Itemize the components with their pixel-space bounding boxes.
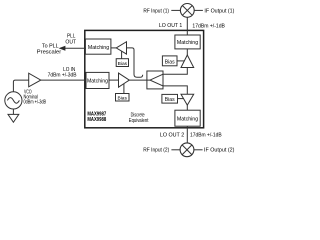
svg-text:Matching: Matching xyxy=(177,116,198,122)
wire bias B1 to amp A1 xyxy=(121,51,123,59)
matching network M4 (LO OUT 2) xyxy=(175,110,200,126)
amplifier A2 (LO buffer, points right) xyxy=(119,73,130,87)
amplifier A1 (PLL buffer, points left) xyxy=(116,42,126,54)
wire PLL OUT (arrow to IC) xyxy=(65,47,86,49)
svg-text:Prescaler: Prescaler xyxy=(37,49,62,55)
amplifier A4 (LO OUT 2 buffer, points down) xyxy=(181,94,194,105)
svg-text:IF Output (1): IF Output (1) xyxy=(204,8,234,14)
matching network M3 (LO OUT 1) xyxy=(175,35,200,49)
external amplifier A5 (LO driver) xyxy=(29,73,41,87)
svg-text:Bias: Bias xyxy=(118,96,128,102)
IC outline MAX9987/MAX9988 xyxy=(85,30,204,127)
svg-text:MAX9988: MAX9988 xyxy=(87,117,106,123)
wire bias B3 to amp A3 xyxy=(177,60,184,62)
bias B4 (for A4) xyxy=(162,94,178,103)
wire RF input 2 to mixer X2 xyxy=(171,149,180,151)
wire matching M1 to amp A1 xyxy=(111,47,116,49)
svg-text:0dBm +/-3dB: 0dBm +/-3dB xyxy=(24,100,47,106)
svg-text:Matching: Matching xyxy=(87,79,108,85)
wire LO OUT 1: mixer X1 to matching M3 xyxy=(186,17,188,35)
wire VCO to ground xyxy=(12,109,14,114)
wire bias B2 to amp A2 xyxy=(123,84,125,94)
wire splitter top output to amp A3 xyxy=(163,68,187,75)
wire VCO to amp A5 xyxy=(13,80,28,92)
svg-text:Matching: Matching xyxy=(177,40,198,46)
svg-text:RF Input (2): RF Input (2) xyxy=(143,148,169,154)
bias B2 (for A2) xyxy=(116,94,130,102)
svg-text:17dBm +/-1dB: 17dBm +/-1dB xyxy=(190,133,222,139)
wire splitter bottom output to amp A4 xyxy=(163,86,187,94)
svg-text:Bias: Bias xyxy=(118,61,128,67)
wire bias B4 to amp A4 xyxy=(178,98,184,100)
svg-text:Equivalent: Equivalent xyxy=(129,118,149,124)
wire amp A4 to matching M4 xyxy=(186,105,188,110)
arrow to PLL prescaler xyxy=(59,46,66,51)
wire RF input 1 to mixer X1 xyxy=(171,9,180,11)
wire mixer X1 to IF output 1 xyxy=(194,9,203,11)
svg-text:IF Output (2): IF Output (2) xyxy=(204,148,235,154)
wire LO OUT 2: matching M4 to mixer X2 xyxy=(186,126,188,143)
splitter S1 xyxy=(147,71,163,89)
matching network M1 (PLL out path) xyxy=(85,39,111,54)
bias B1 (for A1) xyxy=(116,59,128,67)
wire mixer X2 to IF output 2 xyxy=(194,149,203,151)
svg-text:LO OUT 2: LO OUT 2 xyxy=(160,133,184,139)
VCO source V1 xyxy=(5,92,22,109)
mixer X2 (bottom) xyxy=(180,143,194,157)
svg-text:Bias: Bias xyxy=(165,97,175,103)
wire LO IN to matching M2 xyxy=(41,79,86,81)
wire matching M2 to amp A2 xyxy=(109,79,119,81)
ground xyxy=(8,114,19,122)
svg-text:Bias: Bias xyxy=(165,60,175,66)
bias B3 (for A3) xyxy=(162,56,177,66)
wire amp A3 to matching M3 xyxy=(186,49,188,55)
svg-text:RF Input (1): RF Input (1) xyxy=(143,8,169,14)
svg-text:7dBm +/-3dB: 7dBm +/-3dB xyxy=(48,73,77,79)
wire amp A2 to splitter S1 xyxy=(129,79,150,81)
matching network M2 (LO IN) xyxy=(86,72,109,88)
svg-text:17dBm +/-1dB: 17dBm +/-1dB xyxy=(192,24,225,30)
mixer X1 (top) xyxy=(180,3,194,17)
svg-text:LO OUT 1: LO OUT 1 xyxy=(159,23,182,29)
wire amp A1 input with coupler loop from LO line xyxy=(127,48,143,77)
svg-text:Matching: Matching xyxy=(88,45,109,51)
amplifier A3 (LO OUT 1 buffer, points up) xyxy=(181,55,194,68)
svg-text:OUT: OUT xyxy=(65,39,76,45)
